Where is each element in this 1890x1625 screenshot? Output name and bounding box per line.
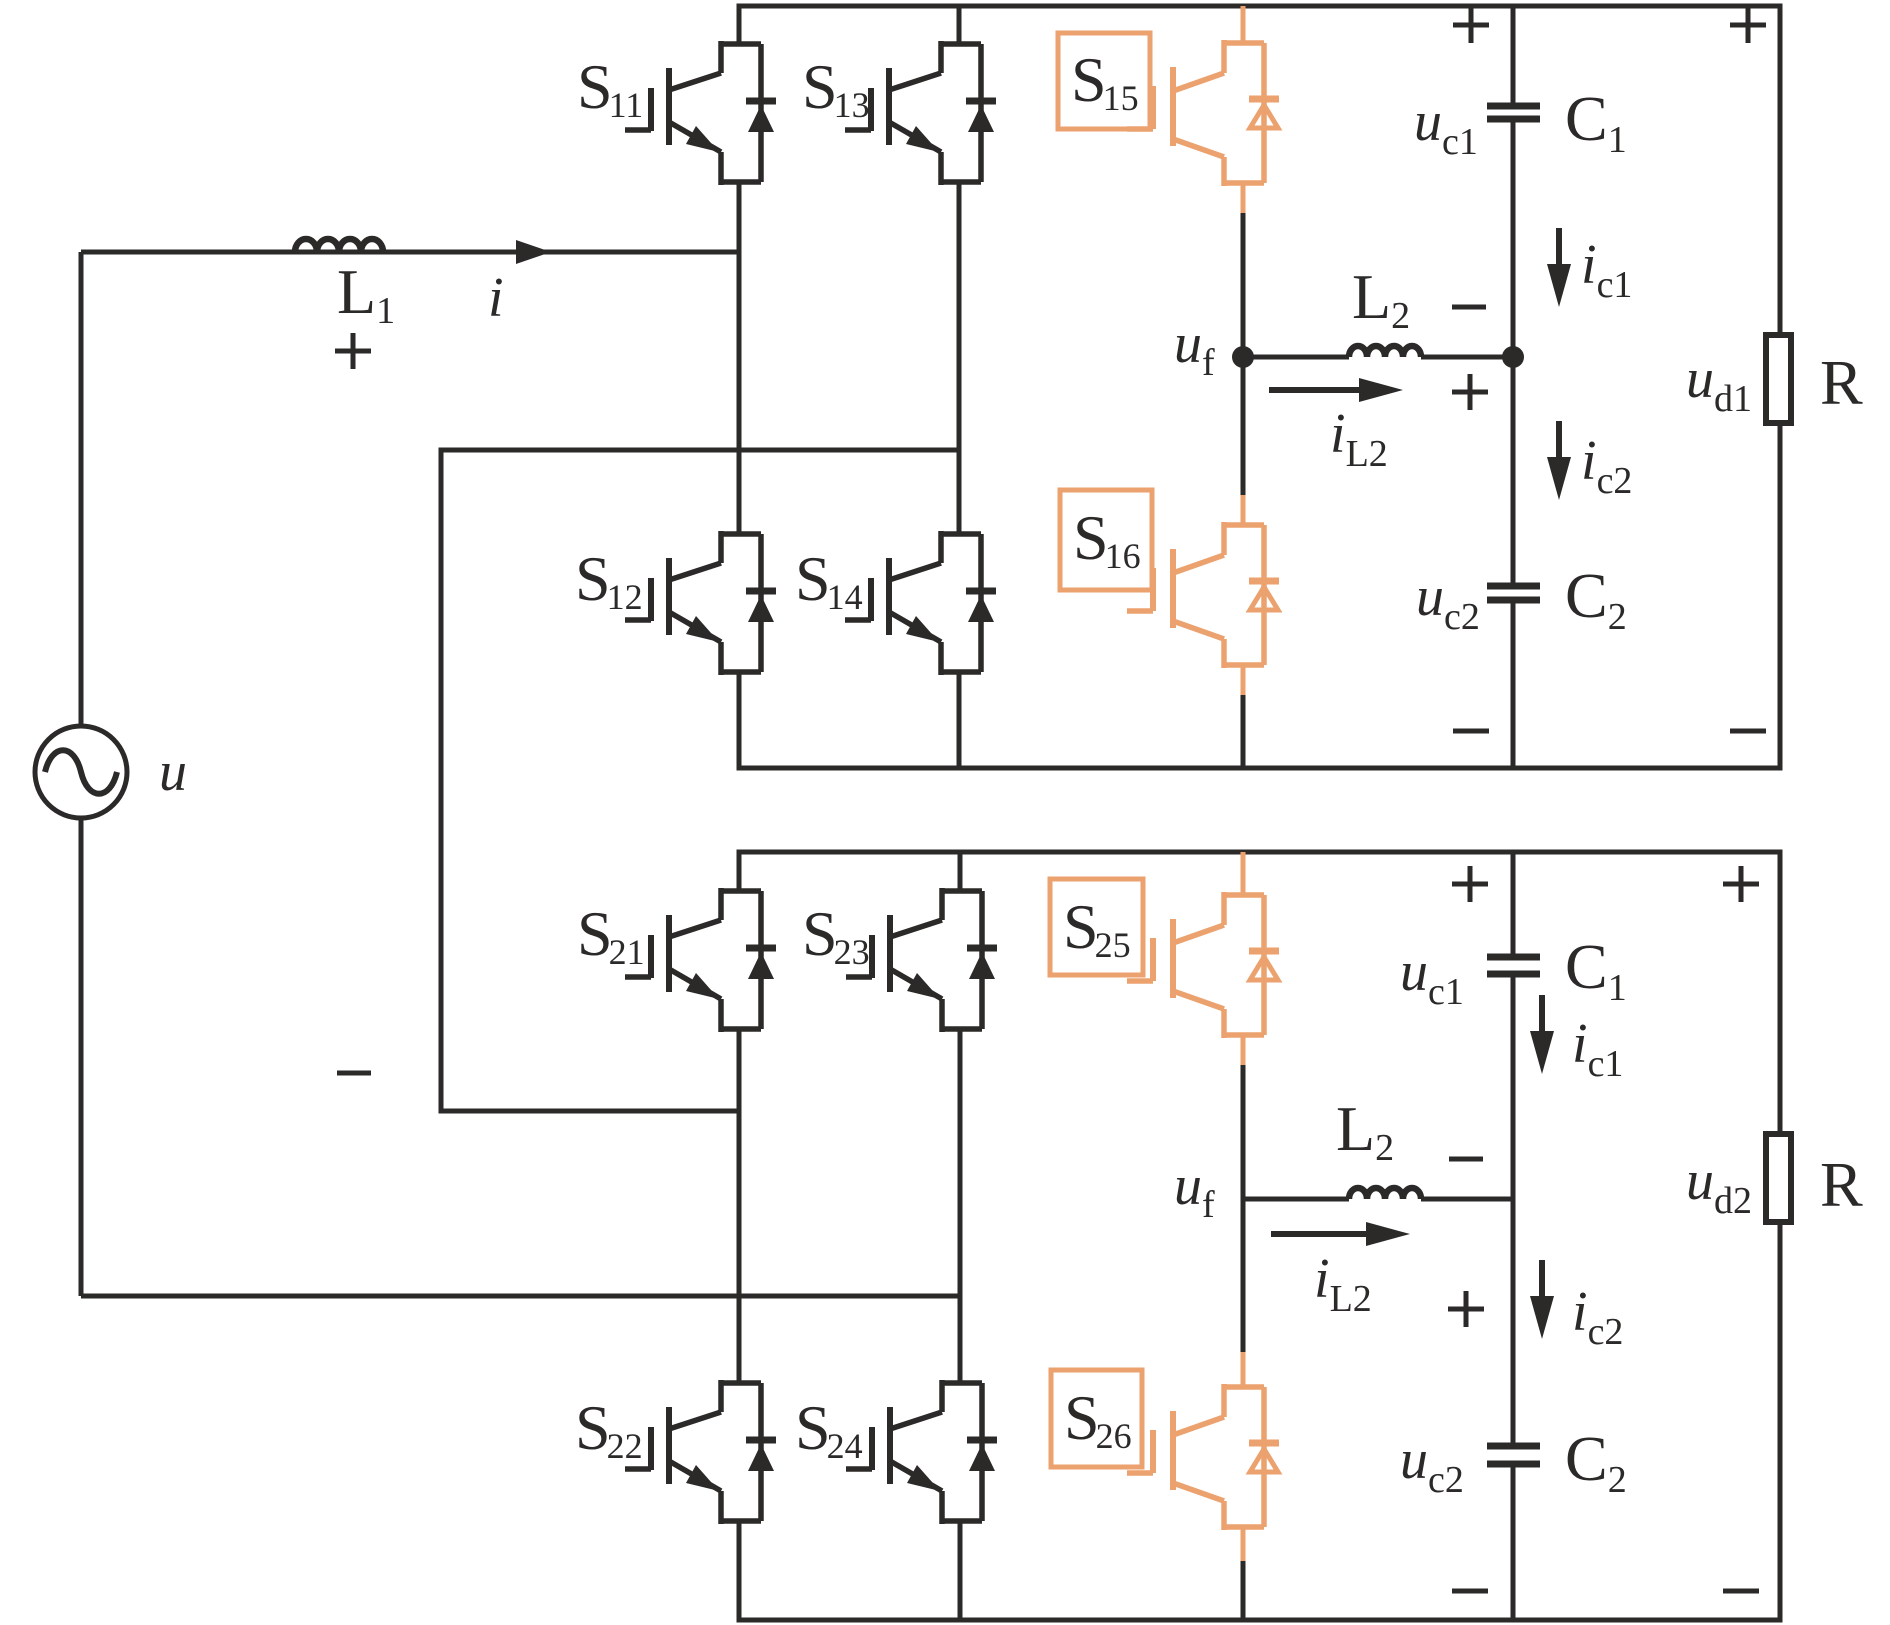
current arrow ic1 (1547, 228, 1571, 307)
svg-text:u: u (159, 741, 187, 803)
svg-text:S12: S12 (575, 543, 643, 617)
svg-text:S16: S16 (1073, 502, 1141, 576)
svg-text:S11: S11 (577, 51, 643, 125)
svg-text:C1: C1 (1565, 931, 1627, 1009)
node uf (dot) (1232, 346, 1254, 368)
wire: uf to cap rail with L2 (1243, 355, 1349, 360)
svg-text:L2: L2 (1352, 261, 1410, 337)
transistor S16 (orange) (1241, 357, 1246, 495)
inductor L1 (295, 239, 383, 252)
wire: S24 bottom riser (958, 1519, 963, 1620)
transistor S11 (625, 41, 776, 185)
inductor L2 (1349, 346, 1421, 357)
svg-text:i: i (488, 267, 504, 329)
node on cap rail (dot) (1502, 346, 1524, 368)
- polarity (source bottom) (337, 1071, 371, 1076)
svg-text:uc1: uc1 (1400, 941, 1464, 1013)
svg-text:S26: S26 (1064, 1382, 1132, 1456)
svg-text:S22: S22 (575, 1392, 643, 1466)
transistor S13 (845, 41, 996, 185)
transistor S25 (orange) (1241, 852, 1246, 895)
svg-text:iL2: iL2 (1314, 1248, 1372, 1320)
svg-text:L2: L2 (1336, 1093, 1394, 1169)
- bottom R branch (module 2) (1723, 1589, 1759, 1594)
svg-text:ic1: ic1 (1581, 234, 1632, 306)
svg-text:uc2: uc2 (1400, 1429, 1464, 1501)
svg-text:ic2: ic2 (1572, 1281, 1623, 1353)
current arrow ic1 (module 2) (1530, 995, 1554, 1074)
wire: S21-S22 leg (737, 1027, 742, 1383)
capacitor C1 (module 2) (1487, 957, 1540, 974)
transistor S23 (846, 888, 997, 1032)
current arrow i (516, 240, 551, 264)
wire: top input run (81, 250, 739, 255)
svg-text:R: R (1820, 347, 1863, 418)
wire: uf to cap rail with L2 (module 2) (1243, 1197, 1349, 1202)
wire: bottom return run to lower bridge (81, 1294, 960, 1299)
wire: mid rail from S13/S14 leg down and across to lower bridge (441, 450, 959, 1111)
svg-text:uf: uf (1174, 313, 1215, 384)
current arrow ic2 (module 2) (1530, 1260, 1554, 1339)
svg-text:S23: S23 (802, 898, 870, 972)
transistor S21 (625, 888, 776, 1032)
- bottom cap branch (module 2) (1452, 1589, 1488, 1594)
svg-text:S24: S24 (795, 1392, 863, 1466)
svg-text:ic1: ic1 (1572, 1013, 1623, 1085)
svg-text:S14: S14 (795, 543, 863, 617)
+ top (R branch) (1730, 7, 1766, 43)
svg-text:uc1: uc1 (1414, 91, 1478, 163)
wire: S15 emitter to uf node (1241, 183, 1246, 213)
- sign right of L2 (1452, 305, 1486, 310)
+ sign below (module 2) (1448, 1291, 1484, 1327)
wire: S14 bottom riser (957, 670, 962, 768)
svg-text:ud2: ud2 (1686, 1150, 1752, 1222)
svg-text:C2: C2 (1565, 560, 1627, 638)
svg-text:uf: uf (1174, 1155, 1215, 1226)
wire: S11-S12 leg (737, 180, 742, 534)
svg-text:iL2: iL2 (1330, 403, 1388, 475)
wire: source top to L1 corner (79, 252, 84, 726)
transistor S12 (625, 531, 776, 675)
capacitor rail segments (module 2) (1511, 852, 1516, 954)
capacitor rail segments (1511, 6, 1516, 103)
svg-text:ud1: ud1 (1686, 348, 1752, 420)
current arrow iL2 (module 2) (1271, 1231, 1370, 1237)
wire: top bus (739, 6, 1780, 335)
wire: S13 top riser (957, 6, 962, 44)
resistor R (1766, 335, 1791, 423)
transistor S22 (625, 1380, 776, 1524)
wire: S25 emitter down to uf (1241, 1035, 1246, 1065)
- bottom (cap branch) (1453, 729, 1489, 734)
svg-text:S25: S25 (1063, 891, 1131, 965)
wire: S23-S24 leg (958, 1027, 963, 1383)
+ sign below (1452, 374, 1488, 410)
+ top (cap branch) (1453, 7, 1489, 43)
AC source u (35, 726, 127, 818)
+ top R branch (module 2) (1723, 866, 1759, 902)
inductor L2 (module 2) (1349, 1188, 1421, 1199)
svg-text:uc2: uc2 (1416, 566, 1480, 638)
+ top cap branch (module 2) (1452, 866, 1488, 902)
transistor S24 (846, 1380, 997, 1524)
svg-text:C2: C2 (1565, 1423, 1627, 1501)
wire: bottom bus (module 2) (739, 1222, 1780, 1620)
wire: source bottom down to return corner (79, 818, 84, 1296)
capacitor C2 (module 2) (1487, 1446, 1540, 1464)
svg-text:C1: C1 (1565, 83, 1627, 161)
label box S16 (1060, 490, 1152, 590)
label box S15 (1058, 33, 1150, 129)
- sign right of L2 (module 2) (1449, 1157, 1483, 1162)
transistor S14 (845, 531, 996, 675)
wire: S23 top riser (958, 852, 963, 891)
- bottom (R branch) (1730, 729, 1766, 734)
wire: top bus (module 2) (739, 852, 1780, 1134)
wire: S13-S14 leg (957, 180, 962, 534)
svg-text:S15: S15 (1071, 44, 1139, 118)
capacitor C1 (1487, 106, 1540, 119)
+ polarity (source top) (335, 333, 371, 369)
svg-text:L1: L1 (337, 256, 395, 332)
capacitor C2 (1487, 586, 1540, 600)
wire: bottom bus (739, 423, 1780, 768)
transistor S15 (orange) (1241, 6, 1246, 43)
label box S25 (1050, 879, 1143, 975)
svg-text:S13: S13 (802, 51, 870, 125)
transistor S26 (orange) (1241, 1199, 1246, 1352)
svg-text:S21: S21 (577, 898, 645, 972)
svg-text:ic2: ic2 (1581, 430, 1632, 502)
current arrow ic2 (1547, 421, 1571, 500)
label box S26 (1051, 1370, 1142, 1467)
svg-text:R: R (1820, 1149, 1863, 1220)
resistor R (module 2) (1766, 1134, 1791, 1222)
current arrow iL2 (1269, 387, 1363, 393)
